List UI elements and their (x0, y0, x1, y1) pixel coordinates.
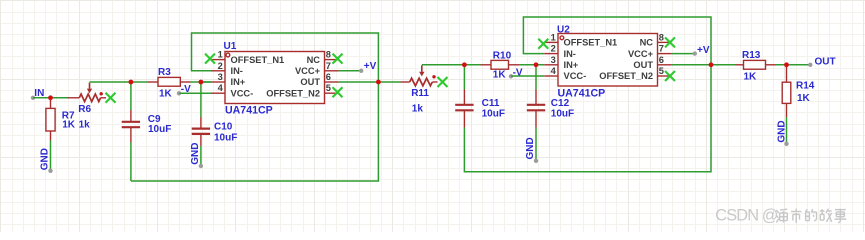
svg-text:1K: 1K (159, 88, 173, 99)
svg-text:R6: R6 (78, 104, 91, 115)
R7 label (62, 111, 75, 122)
wire U1 OUT to junction (339, 81, 379, 83)
svg-text:IN+: IN+ (564, 60, 579, 70)
R6 value 1k (79, 120, 91, 131)
ground GND (R14) (776, 120, 788, 146)
svg-text:1k: 1k (79, 120, 91, 131)
svg-text:VCC-: VCC- (231, 88, 254, 98)
svg-text:7: 7 (659, 44, 664, 54)
svg-text:1: 1 (218, 50, 223, 60)
junction at U1 OUT net (376, 80, 381, 85)
R3 label (158, 67, 171, 78)
junction at R14 top (784, 62, 789, 67)
ground GND (C10) (190, 143, 203, 169)
capacitor C10 (192, 82, 210, 146)
svg-text:NC: NC (640, 38, 654, 48)
svg-text:OUT: OUT (300, 77, 320, 87)
op-amp U2 body (544, 34, 671, 87)
no-connect X on U1 pin1 (205, 54, 215, 64)
R7 value 1K (62, 120, 76, 131)
power -V (U1 pin4) (177, 84, 191, 96)
svg-text:R3: R3 (158, 67, 171, 78)
U2 designator (557, 25, 570, 36)
svg-text:R10: R10 (493, 51, 512, 62)
wire U2 VCC+ to +V (671, 53, 694, 55)
svg-text:7: 7 (326, 61, 331, 71)
wire U1 feedback loop (OUT to IN-) and output net (131, 33, 379, 181)
junction at U2 pin3 / C12 (534, 62, 539, 67)
junction at U1 pin3 / C10 (199, 80, 204, 85)
svg-text:10uF: 10uF (551, 109, 574, 120)
C12 label (551, 98, 570, 109)
no-connect X on U2 pin1 (538, 39, 548, 49)
svg-text:GND: GND (776, 120, 787, 142)
capacitor C12 (527, 65, 545, 128)
C12 value 10uF (551, 109, 574, 120)
capacitor C9 (122, 82, 140, 143)
wire IN to junction (33, 97, 51, 99)
port IN (31, 88, 45, 100)
power -V (U2 pin4) (509, 67, 523, 78)
potentiometer R6 (67, 83, 106, 102)
wire R3 to pin3 junction (191, 81, 212, 83)
svg-text:GND: GND (190, 143, 201, 165)
R11 label (411, 88, 429, 99)
C10 label (214, 121, 233, 132)
svg-text:R11: R11 (411, 88, 429, 99)
no-connect X on U2 pin5 (665, 71, 675, 81)
svg-text:+V: +V (364, 61, 377, 72)
C11 value 10uF (482, 109, 505, 120)
potentiometer R11 (401, 65, 438, 85)
wire junction to U1 pin3 (201, 81, 211, 83)
wire -V to U1 pin4 (180, 92, 212, 94)
svg-text:2: 2 (551, 44, 556, 54)
svg-text:5: 5 (659, 66, 664, 76)
svg-text:IN-: IN- (231, 66, 243, 76)
wire U2 OUT to junction (671, 64, 711, 66)
wire OUT junction to R11 (378, 81, 400, 83)
U1 designator (224, 41, 237, 52)
svg-text:6: 6 (326, 72, 331, 82)
wire C9 junction to R3 (131, 81, 148, 83)
wire junction to R13 (711, 64, 736, 66)
svg-text:1k: 1k (412, 104, 424, 115)
junction at C11 (462, 62, 467, 67)
power +V (U2 pin7) (693, 45, 710, 56)
power +V (U1 pin7) (359, 61, 377, 73)
svg-text:2: 2 (218, 61, 223, 71)
U1 part number UA741CP (225, 105, 273, 117)
C9 value 10uF (148, 124, 171, 135)
no-connect X on U1 pin8 (333, 54, 343, 64)
watermark CSDN (715, 206, 846, 224)
no-connect X on U2 pin8 (665, 37, 675, 47)
svg-text:5: 5 (326, 83, 331, 93)
svg-text:8: 8 (326, 50, 331, 60)
wire R13 to OUT (776, 64, 810, 66)
svg-text:C12: C12 (551, 98, 570, 109)
ground GND (C12) (525, 137, 538, 163)
junction at C9 (129, 80, 134, 85)
R13 label (742, 50, 761, 61)
C11 label (482, 98, 500, 109)
wire C10 to ground (200, 146, 202, 165)
resistor R7 (46, 98, 55, 141)
svg-text:10uF: 10uF (214, 132, 237, 143)
wire R7 to ground (50, 141, 52, 170)
wire -V to U2 pin4 (511, 75, 544, 77)
svg-text:GND: GND (39, 148, 50, 170)
U2 pin names (564, 38, 654, 82)
U2 part number UA741CP (558, 87, 606, 99)
svg-text:1K: 1K (744, 72, 758, 83)
C9 label (148, 114, 161, 125)
svg-text:C11: C11 (482, 98, 500, 109)
svg-text:CSDN @: CSDN @ (715, 206, 777, 224)
svg-text:U2: U2 (557, 25, 570, 36)
svg-text:R13: R13 (742, 50, 761, 61)
resistor R13 (736, 60, 776, 69)
C10 value 10uF (214, 132, 237, 143)
svg-text:OFFSET_N1: OFFSET_N1 (231, 55, 285, 65)
svg-text:VCC-: VCC- (564, 71, 587, 81)
svg-text:OFFSET_N2: OFFSET_N2 (599, 71, 653, 81)
svg-text:U1: U1 (224, 41, 237, 52)
R3 value 1K (159, 88, 173, 99)
svg-text:1K: 1K (493, 70, 507, 81)
svg-text:3: 3 (551, 55, 556, 65)
no-connect X on U1 pin5 (333, 87, 343, 97)
junction at R7 top (48, 95, 53, 100)
svg-text:NC: NC (307, 55, 321, 65)
op-amp U1 body (211, 52, 339, 104)
wire R10 to pin3 junction (519, 64, 544, 66)
svg-text:OUT: OUT (815, 56, 836, 67)
svg-text:4: 4 (218, 83, 224, 93)
svg-text:UA741CP: UA741CP (225, 105, 273, 117)
resistor R3 (148, 77, 191, 86)
wire R14 to ground (786, 117, 788, 143)
no-connect X on R11 terminal (438, 77, 448, 87)
R10 label (493, 51, 512, 62)
svg-text:C10: C10 (214, 121, 233, 132)
R14 label (796, 81, 815, 92)
R11 value 1k (412, 104, 424, 115)
R6 label (78, 104, 91, 115)
wire U1 VCC+ to +V (339, 70, 361, 72)
wire R6 wiper to C9 junction (90, 81, 132, 83)
port OUT (808, 56, 836, 67)
svg-text:OFFSET_N1: OFFSET_N1 (564, 38, 618, 48)
wire C12 to ground (535, 128, 537, 160)
svg-text:+V: +V (697, 45, 710, 56)
svg-text:6: 6 (659, 55, 664, 65)
svg-text:1K: 1K (62, 120, 76, 131)
resistor R14 (782, 65, 791, 117)
svg-text:1K: 1K (797, 93, 811, 104)
R13 value 1K (744, 72, 758, 83)
svg-text:UA741CP: UA741CP (558, 87, 606, 99)
wire R11 wiper to C11 junction (422, 64, 465, 66)
R14 value 1K (797, 93, 811, 104)
U1 pin numbers (218, 50, 331, 94)
svg-text:OUT: OUT (633, 60, 653, 70)
svg-text:IN+: IN+ (231, 77, 246, 87)
svg-text:VCC+: VCC+ (295, 66, 321, 76)
svg-text:4: 4 (551, 66, 557, 76)
svg-text:IN-: IN- (564, 49, 576, 59)
U1 pin names (231, 55, 321, 99)
svg-text:8: 8 (659, 32, 664, 42)
ground GND (R7) (39, 148, 52, 173)
svg-text:1: 1 (551, 32, 556, 42)
wire C11 junction to R10 (464, 64, 480, 66)
capacitor C11 (455, 65, 473, 128)
wire U2 feedback loop and bottom net (464, 17, 711, 172)
resistor R10 (481, 60, 520, 69)
svg-text:VCC+: VCC+ (628, 49, 654, 59)
U2 pin numbers (551, 32, 664, 76)
svg-text:3: 3 (218, 72, 223, 82)
svg-text:10uF: 10uF (148, 124, 171, 135)
wire junction to R6 (51, 97, 68, 99)
svg-text:R14: R14 (796, 81, 815, 92)
svg-text:10uF: 10uF (482, 109, 505, 120)
svg-text:GND: GND (525, 137, 536, 159)
no-connect X on R6 terminal (106, 93, 116, 103)
svg-text:OFFSET_N2: OFFSET_N2 (266, 88, 320, 98)
junction at U2 OUT net (709, 62, 714, 67)
R10 value 1K (493, 70, 507, 81)
